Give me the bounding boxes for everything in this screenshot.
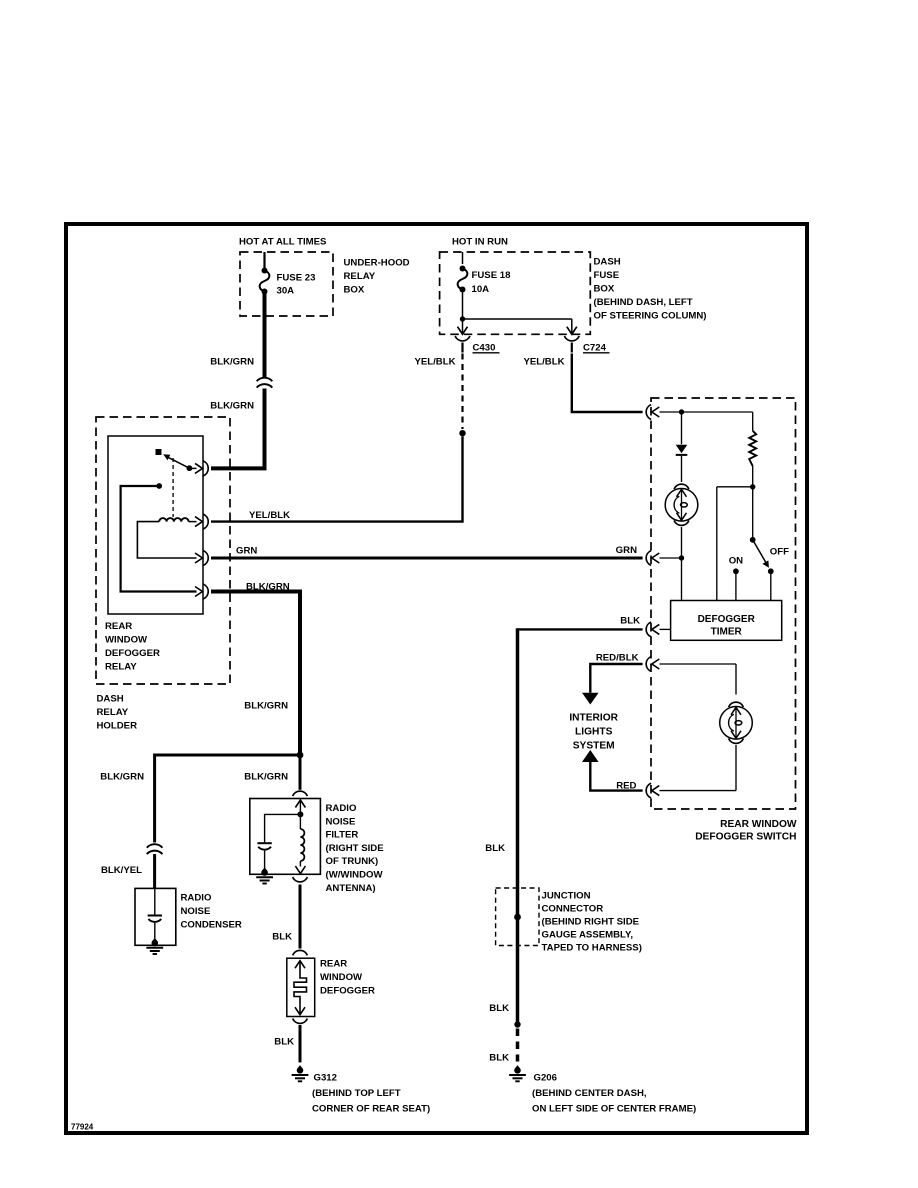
svg-text:UNDER-HOOD: UNDER-HOOD bbox=[344, 258, 410, 269]
svg-text:YEL/BLK: YEL/BLK bbox=[414, 357, 455, 368]
svg-text:BLK: BLK bbox=[489, 1003, 509, 1014]
svg-text:BOX: BOX bbox=[344, 285, 365, 296]
svg-text:C724: C724 bbox=[583, 343, 607, 354]
svg-text:30A: 30A bbox=[277, 286, 295, 297]
svg-text:(BEHIND CENTER DASH,: (BEHIND CENTER DASH, bbox=[532, 1088, 647, 1099]
svg-text:ON: ON bbox=[729, 556, 743, 567]
svg-text:HOT AT ALL TIMES: HOT AT ALL TIMES bbox=[239, 237, 327, 248]
svg-text:FUSE 23: FUSE 23 bbox=[277, 273, 316, 284]
svg-text:TIMER: TIMER bbox=[711, 627, 743, 638]
svg-text:DEFOGGER: DEFOGGER bbox=[320, 986, 375, 997]
svg-text:RELAY: RELAY bbox=[344, 271, 376, 282]
svg-text:GRN: GRN bbox=[236, 546, 257, 557]
svg-text:BLK: BLK bbox=[489, 1053, 509, 1064]
svg-text:REAR: REAR bbox=[320, 959, 347, 970]
svg-text:WINDOW: WINDOW bbox=[320, 972, 363, 983]
svg-text:REAR: REAR bbox=[105, 621, 132, 632]
svg-text:CONDENSER: CONDENSER bbox=[181, 920, 242, 931]
svg-text:BLK/GRN: BLK/GRN bbox=[100, 772, 144, 783]
svg-text:BLK/GRN: BLK/GRN bbox=[210, 401, 254, 412]
svg-text:CONNECTOR: CONNECTOR bbox=[542, 903, 604, 914]
svg-text:DASH: DASH bbox=[97, 694, 124, 705]
svg-text:INTERIOR: INTERIOR bbox=[569, 713, 618, 724]
svg-text:REAR WINDOW: REAR WINDOW bbox=[720, 819, 797, 830]
svg-text:BLK: BLK bbox=[485, 843, 505, 854]
svg-text:HOLDER: HOLDER bbox=[97, 721, 138, 732]
svg-text:LIGHTS: LIGHTS bbox=[575, 727, 613, 738]
svg-text:OF STEERING COLUMN): OF STEERING COLUMN) bbox=[594, 311, 707, 322]
svg-text:BLK/GRN: BLK/GRN bbox=[244, 772, 288, 783]
svg-text:WINDOW: WINDOW bbox=[105, 635, 148, 646]
svg-text:RELAY: RELAY bbox=[97, 707, 129, 718]
svg-text:BOX: BOX bbox=[594, 284, 615, 295]
svg-text:FUSE: FUSE bbox=[594, 270, 620, 281]
svg-text:FUSE 18: FUSE 18 bbox=[472, 270, 512, 281]
svg-text:RADIO: RADIO bbox=[181, 893, 212, 904]
svg-text:HOT IN RUN: HOT IN RUN bbox=[452, 237, 508, 248]
svg-text:JUNCTION: JUNCTION bbox=[542, 890, 591, 901]
svg-text:NOISE: NOISE bbox=[181, 906, 211, 917]
svg-text:CORNER OF REAR SEAT): CORNER OF REAR SEAT) bbox=[312, 1104, 430, 1115]
svg-text:RED: RED bbox=[616, 781, 636, 792]
svg-text:OF TRUNK): OF TRUNK) bbox=[326, 856, 379, 867]
svg-text:RADIO: RADIO bbox=[326, 803, 357, 814]
svg-text:BLK/YEL: BLK/YEL bbox=[101, 865, 142, 876]
svg-text:(BEHIND RIGHT SIDE: (BEHIND RIGHT SIDE bbox=[542, 916, 640, 927]
svg-text:BLK: BLK bbox=[620, 616, 640, 627]
svg-text:G206: G206 bbox=[534, 1073, 557, 1084]
svg-text:77924: 77924 bbox=[71, 1123, 94, 1132]
svg-text:BLK/GRN: BLK/GRN bbox=[244, 701, 288, 712]
svg-text:DASH: DASH bbox=[594, 257, 621, 268]
svg-text:BLK/GRN: BLK/GRN bbox=[210, 357, 254, 368]
svg-text:DEFOGGER SWITCH: DEFOGGER SWITCH bbox=[695, 832, 796, 843]
svg-text:C430: C430 bbox=[473, 343, 496, 354]
svg-text:DEFOGGER: DEFOGGER bbox=[698, 614, 756, 625]
svg-text:(W/WINDOW: (W/WINDOW bbox=[326, 870, 384, 881]
svg-text:GAUGE ASSEMBLY,: GAUGE ASSEMBLY, bbox=[542, 929, 634, 940]
svg-text:TAPED TO HARNESS): TAPED TO HARNESS) bbox=[542, 942, 642, 953]
svg-text:G312: G312 bbox=[314, 1073, 337, 1084]
svg-text:ANTENNA): ANTENNA) bbox=[326, 883, 376, 894]
svg-text:10A: 10A bbox=[472, 284, 490, 295]
svg-text:YEL/BLK: YEL/BLK bbox=[523, 357, 564, 368]
svg-text:SYSTEM: SYSTEM bbox=[573, 741, 615, 752]
svg-text:(BEHIND TOP LEFT: (BEHIND TOP LEFT bbox=[312, 1088, 401, 1099]
svg-text:YEL/BLK: YEL/BLK bbox=[249, 510, 290, 521]
svg-text:NOISE: NOISE bbox=[326, 816, 356, 827]
svg-text:FILTER: FILTER bbox=[326, 830, 359, 841]
svg-text:(RIGHT SIDE: (RIGHT SIDE bbox=[326, 843, 385, 854]
svg-text:BLK: BLK bbox=[272, 932, 292, 943]
svg-text:DEFOGGER: DEFOGGER bbox=[105, 648, 160, 659]
svg-text:RED/BLK: RED/BLK bbox=[596, 653, 639, 664]
svg-text:GRN: GRN bbox=[616, 545, 637, 556]
svg-text:RELAY: RELAY bbox=[105, 662, 137, 673]
svg-text:ON LEFT SIDE OF CENTER FRAME): ON LEFT SIDE OF CENTER FRAME) bbox=[532, 1104, 696, 1115]
svg-text:(BEHIND DASH, LEFT: (BEHIND DASH, LEFT bbox=[594, 297, 693, 308]
svg-text:OFF: OFF bbox=[770, 547, 789, 558]
svg-text:BLK: BLK bbox=[274, 1037, 294, 1048]
